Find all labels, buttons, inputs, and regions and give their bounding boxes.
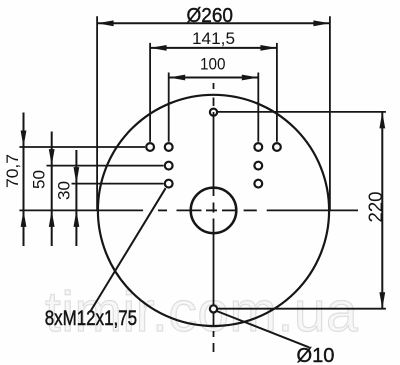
extension line right D260 bbox=[329, 16, 331, 211]
dimension line 141.5 bbox=[150, 47, 277, 49]
dimension line 220 bbox=[381, 112, 383, 309]
dimension line 70.7 bbox=[23, 113, 25, 247]
extension line row 30 bbox=[72, 183, 164, 185]
svg-text:220: 220 bbox=[366, 192, 387, 223]
hole A2 bbox=[273, 143, 281, 151]
hole A bbox=[146, 143, 154, 151]
arrow 70.7 top bbox=[21, 131, 27, 148]
hole D bbox=[165, 180, 173, 188]
arrow 30 top bbox=[74, 167, 80, 184]
arrow 30 bottom bbox=[74, 210, 80, 227]
hole D2 bbox=[254, 180, 262, 188]
hole C bbox=[165, 162, 173, 170]
hole B bbox=[165, 143, 173, 151]
extension line hole B2 up bbox=[257, 73, 259, 142]
arrow 141.5 left bbox=[150, 45, 167, 51]
hole C2 bbox=[254, 162, 262, 170]
arrowheads bbox=[21, 20, 386, 308]
extension line row 50 bbox=[47, 165, 164, 167]
dimension line 30 bbox=[75, 150, 77, 246]
arrow 70.7 bottom bbox=[21, 210, 27, 227]
dimension line 50 bbox=[51, 132, 53, 247]
vertical centerline bbox=[213, 83, 215, 352]
flange outer circle D260 bbox=[98, 95, 329, 326]
svg-text:30: 30 bbox=[55, 181, 74, 200]
leader D10 bbox=[217, 311, 309, 347]
extension line row 70.7 bbox=[19, 146, 145, 148]
extension line left D260 bbox=[96, 16, 98, 211]
arrow 50 bottom bbox=[49, 210, 55, 227]
svg-text:141,5: 141,5 bbox=[192, 29, 235, 48]
hole B2 bbox=[254, 143, 262, 151]
extension line hole A up bbox=[149, 43, 151, 142]
arrow 100 right bbox=[242, 75, 258, 81]
horizontal centerline bbox=[158, 209, 358, 211]
svg-text:100: 100 bbox=[200, 55, 226, 74]
extension line center row bbox=[19, 209, 143, 211]
svg-text:8xM12x1,75: 8xM12x1,75 bbox=[45, 307, 137, 330]
dimension line 100 bbox=[169, 77, 259, 79]
arrow 220 bottom bbox=[379, 292, 385, 309]
leader 8xM12 bbox=[90, 188, 166, 312]
extension line hole A2 up bbox=[276, 43, 278, 142]
extension line top hole right bbox=[218, 111, 386, 113]
dimension line D260 bbox=[97, 22, 330, 24]
pilot bore circle bbox=[191, 188, 237, 234]
arrow D260 right bbox=[313, 20, 330, 26]
arrow 50 top bbox=[49, 149, 55, 166]
svg-text:Ø10: Ø10 bbox=[297, 345, 335, 365]
extension line bottom hole right bbox=[218, 308, 386, 310]
arrow 141.5 right bbox=[260, 45, 277, 51]
svg-text:70,7: 70,7 bbox=[3, 154, 22, 188]
arrow 220 top bbox=[379, 112, 385, 128]
arrow 100 left bbox=[169, 75, 186, 81]
top hole bbox=[210, 109, 217, 116]
svg-text:50: 50 bbox=[30, 170, 49, 189]
bottom hole D10 bbox=[210, 305, 217, 312]
arrow D260 left bbox=[97, 20, 114, 26]
extension line hole B up bbox=[168, 73, 170, 142]
svg-text:Ø260: Ø260 bbox=[187, 4, 234, 27]
